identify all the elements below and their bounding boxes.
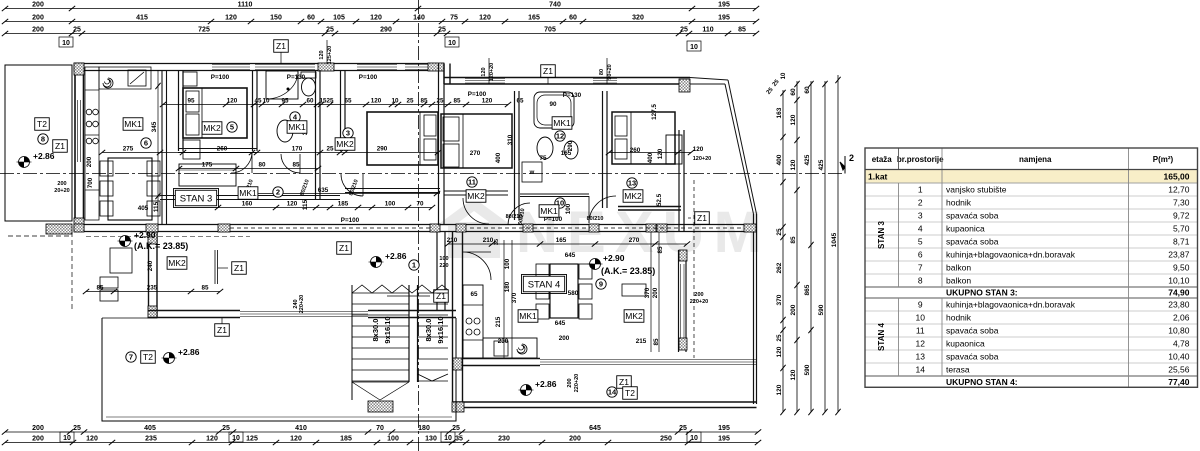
svg-text:120: 120 (790, 369, 797, 380)
svg-text:110: 110 (702, 27, 713, 34)
svg-text:(A.K.= 23.85): (A.K.= 23.85) (134, 241, 188, 251)
svg-text:MK2: MK2 (203, 123, 221, 133)
svg-text:6: 6 (144, 139, 148, 148)
chairs living left (100, 277, 118, 288)
wall between living and bedroom5 strip (161, 70, 163, 224)
living room bottom wall left seg (148, 310, 240, 312)
svg-text:hodnik: hodnik (946, 198, 972, 208)
svg-text:+2.86: +2.86 (178, 347, 200, 357)
kitchen counter stan3 top strip (99, 67, 151, 89)
svg-text:310: 310 (507, 134, 514, 145)
svg-text:STAN 3: STAN 3 (877, 221, 886, 249)
svg-text:UKUPNO STAN 4:: UKUPNO STAN 4: (946, 377, 1018, 387)
svg-text:+2.86: +2.86 (33, 151, 55, 161)
svg-text:85: 85 (201, 285, 209, 292)
balcony 8 bottom pier (46, 224, 72, 234)
svg-text:85: 85 (657, 246, 664, 254)
svg-text:52.5: 52.5 (656, 193, 663, 206)
svg-text:w: w (529, 170, 535, 176)
terrace door living room (240, 311, 368, 313)
svg-text:7: 7 (918, 263, 923, 273)
svg-text:25: 25 (776, 228, 783, 236)
bath right wall (315, 70, 317, 200)
svg-text:+2.86: +2.86 (535, 379, 557, 389)
terrace 7 outline (102, 318, 456, 421)
svg-text:MK1: MK1 (239, 188, 257, 198)
svg-text:Z1: Z1 (436, 291, 446, 301)
svg-text:1: 1 (918, 185, 923, 195)
svg-text:6: 6 (918, 250, 923, 260)
svg-text:Z1: Z1 (339, 243, 349, 253)
stan4 kitchen counter vertical (463, 285, 483, 358)
top dim row 1 (5, 8, 756, 10)
top dim row 2 (5, 21, 756, 23)
svg-text:60: 60 (569, 15, 577, 22)
outer wall: top band lower (right part) (444, 77, 690, 79)
stair arrow flight2 bottom (418, 374, 449, 381)
window left wall (77, 100, 79, 162)
svg-text:400: 400 (776, 154, 783, 165)
svg-text:210: 210 (483, 237, 494, 244)
svg-text:spavaća soba: spavaća soba (946, 326, 999, 336)
svg-text:25: 25 (326, 27, 334, 34)
svg-text:80/210: 80/210 (506, 214, 523, 220)
svg-text:80/210: 80/210 (587, 216, 604, 222)
svg-text:P=100: P=100 (359, 74, 378, 81)
svg-text:160: 160 (242, 201, 253, 208)
svg-text:120: 120 (225, 15, 237, 22)
bedroom5 left wall (178, 70, 180, 151)
svg-text:8: 8 (918, 276, 923, 286)
svg-text:270: 270 (470, 150, 481, 157)
svg-text:215: 215 (636, 338, 647, 345)
sink stan4 (494, 341, 508, 356)
stair treads flight 2 (418, 292, 449, 294)
section line horizontal 2 (0, 173, 845, 175)
svg-text:170: 170 (292, 146, 303, 153)
svg-text:105: 105 (333, 15, 345, 22)
small vertical dim above wall x607 (606, 58, 608, 84)
svg-text:1045: 1045 (831, 232, 838, 247)
svg-text:370: 370 (776, 294, 783, 305)
dashed vertical terrace boundary (693, 180, 695, 358)
armchair living (110, 248, 132, 273)
+2.86 marker at stairs top (376, 257, 382, 263)
stairs center wall (408, 285, 410, 382)
svg-text:35: 35 (455, 436, 463, 443)
svg-text:95: 95 (281, 98, 289, 105)
svg-text:262: 262 (776, 262, 783, 273)
svg-text:645: 645 (555, 320, 566, 327)
svg-text:75: 75 (539, 155, 547, 162)
svg-text:10: 10 (781, 72, 787, 79)
svg-text:10,80: 10,80 (1168, 326, 1190, 336)
stan4 dim row y243 (448, 243, 687, 245)
hall10 wall (520, 193, 589, 195)
dashed line below band left (86, 236, 250, 238)
svg-text:185: 185 (340, 436, 352, 443)
svg-text:115: 115 (302, 199, 309, 210)
svg-text:P(m²): P(m²) (1153, 155, 1174, 164)
toilet bath4 (301, 72, 316, 78)
sofa stan3 upper (179, 164, 236, 186)
svg-text:8x30.0: 8x30.0 (424, 319, 433, 342)
svg-text:120+20: 120+20 (693, 156, 712, 162)
svg-text:23,80: 23,80 (1168, 300, 1190, 310)
bed 3 (MK2) (367, 112, 438, 165)
svg-text:5: 5 (918, 237, 923, 247)
right outer wall vertical (753, 214, 755, 404)
bedroom13 bottom wall (618, 206, 681, 208)
svg-text:290: 290 (380, 27, 392, 34)
svg-text:65: 65 (344, 98, 352, 105)
svg-text:25: 25 (452, 425, 460, 432)
Z1 beam mark living (214, 250, 216, 284)
svg-text:370: 370 (644, 287, 651, 298)
right dim line 5 (837, 75, 839, 412)
svg-text:8,71: 8,71 (1173, 237, 1190, 247)
svg-text:260: 260 (217, 146, 228, 153)
svg-text:25: 25 (326, 146, 334, 153)
svg-text:10: 10 (391, 98, 399, 105)
svg-text:12: 12 (916, 339, 926, 349)
svg-text:405: 405 (138, 205, 149, 212)
svg-text:77,40: 77,40 (1168, 377, 1190, 387)
svg-text:Z1: Z1 (217, 325, 227, 335)
svg-text:195: 195 (718, 425, 730, 432)
wardrobe 13 (666, 135, 682, 164)
stairwell walls (452, 232, 454, 402)
T2 label 8 (35, 118, 50, 131)
stair zigzag arrow top (352, 285, 448, 293)
svg-text:35: 35 (494, 239, 500, 245)
svg-text:2: 2 (918, 198, 923, 208)
svg-text:290: 290 (377, 146, 388, 153)
svg-text:230: 230 (498, 436, 510, 443)
shower bath4 (266, 71, 298, 99)
table UKUPNO STAN 4 row (865, 376, 1198, 387)
svg-text:60: 60 (804, 86, 811, 94)
living room right wall (436, 232, 438, 310)
stair left wall (351, 285, 353, 400)
svg-text:120: 120 (693, 146, 704, 153)
sink stan3 (128, 70, 146, 86)
svg-text:85: 85 (790, 236, 797, 244)
labels upper stan4 (467, 177, 477, 187)
svg-text:215: 215 (495, 316, 502, 327)
svg-text:270: 270 (629, 237, 640, 244)
svg-text:P=100: P=100 (211, 74, 230, 81)
svg-text:180: 180 (504, 281, 511, 292)
svg-text:25: 25 (222, 425, 230, 432)
svg-text:MK1: MK1 (288, 122, 306, 132)
bed 5 (MK2 stan3) (183, 88, 247, 138)
svg-text:UKUPNO STAN 3:: UKUPNO STAN 3: (946, 288, 1018, 298)
svg-text:645: 645 (589, 425, 601, 432)
svg-text:250: 250 (660, 436, 672, 443)
svg-text:165: 165 (528, 15, 540, 22)
bottom band piers (74, 224, 84, 232)
svg-text:90: 90 (549, 101, 557, 108)
side table stan4 (622, 284, 646, 296)
svg-text:MK1: MK1 (553, 118, 571, 128)
svg-text:5,70: 5,70 (1173, 224, 1190, 234)
svg-text:4: 4 (918, 224, 923, 234)
svg-text:10: 10 (690, 44, 698, 51)
svg-text:120: 120 (371, 98, 382, 105)
svg-text:115: 115 (153, 201, 160, 212)
svg-text:45: 45 (254, 98, 262, 105)
svg-text:kupaonica: kupaonica (946, 224, 985, 234)
sink bath4 (277, 120, 293, 142)
stan4 kitchen counter bottom (483, 338, 537, 358)
svg-text:345: 345 (151, 121, 158, 132)
bath12 labels (552, 117, 572, 130)
svg-text:9x16.10: 9x16.10 (383, 316, 392, 343)
interior dim row y168 (179, 168, 318, 170)
stair treads flight 1 (352, 292, 409, 294)
svg-text:100: 100 (439, 256, 448, 262)
svg-text:85: 85 (292, 162, 300, 169)
svg-text:7,30: 7,30 (1173, 198, 1190, 208)
dashed projection line below balcony (71, 232, 73, 310)
kitchen counter stan3 vertical strip (85, 67, 99, 220)
window in top wall P=100 (212, 64, 250, 66)
bathtub bath12 (534, 92, 574, 128)
svg-text:60: 60 (307, 15, 315, 22)
svg-text:410: 410 (295, 425, 307, 432)
nightstand bed5 (183, 72, 197, 86)
small vertical dim above wall x489 (488, 58, 490, 84)
svg-text:etaža: etaža (872, 155, 893, 164)
living room left wall (148, 232, 150, 318)
svg-text:590: 590 (804, 364, 811, 375)
svg-text:60: 60 (306, 98, 314, 105)
stan4 interior dim verticals right (650, 232, 652, 352)
door arc hall-bed5 (231, 152, 252, 173)
svg-text:MK1: MK1 (519, 311, 537, 321)
svg-text:10: 10 (444, 435, 452, 442)
svg-text:9,72: 9,72 (1173, 211, 1190, 221)
svg-text:200: 200 (32, 425, 44, 432)
svg-text:9x16.10: 9x16.10 (436, 316, 445, 343)
svg-text:STAN 4: STAN 4 (528, 279, 561, 290)
svg-text:25: 25 (326, 98, 334, 105)
table outer border (865, 148, 1198, 387)
right outer corner + diagonal wall (690, 78, 728, 81)
svg-text:1.kat: 1.kat (868, 172, 888, 182)
svg-text:195: 195 (718, 2, 730, 9)
svg-text:3: 3 (346, 129, 350, 138)
table 1.kat row (865, 170, 1198, 184)
svg-text:4,78: 4,78 (1173, 339, 1190, 349)
bedroom3 left wall (340, 70, 342, 151)
svg-text:740: 740 (549, 2, 561, 9)
svg-text:MK2: MK2 (624, 191, 642, 201)
window in top wall P=100 (2) (357, 64, 397, 66)
boxed 10 labels top (59, 37, 73, 47)
bedroom5 bottom wall (178, 148, 257, 150)
svg-text:180: 180 (418, 425, 430, 432)
svg-text:STAN 4: STAN 4 (877, 323, 886, 351)
svg-text:65: 65 (470, 291, 478, 298)
svg-text:120: 120 (482, 98, 493, 105)
outer wall: top band upper (left part) (74, 63, 444, 65)
boxed 10 labels bottom (60, 432, 74, 442)
svg-text:11: 11 (468, 178, 476, 187)
living dim row y291 (86, 291, 220, 293)
svg-text:+2.86: +2.86 (385, 251, 407, 261)
svg-text:T2: T2 (143, 352, 153, 362)
svg-text:260: 260 (630, 147, 641, 154)
svg-text:865: 865 (804, 284, 811, 295)
svg-text:hodnik: hodnik (946, 313, 972, 323)
door arc bed11 (463, 198, 489, 224)
svg-text:120: 120 (206, 436, 218, 443)
svg-text:220+20: 220+20 (299, 295, 305, 314)
svg-text:320: 320 (632, 15, 644, 22)
svg-text:3: 3 (918, 211, 923, 221)
svg-text:9,50: 9,50 (1173, 263, 1190, 273)
washing machine bath12 (522, 162, 542, 182)
svg-text:400: 400 (495, 152, 502, 163)
svg-text:120: 120 (657, 148, 664, 159)
svg-text:25: 25 (436, 98, 444, 105)
svg-text:P=100: P=100 (341, 217, 360, 224)
svg-text:100: 100 (387, 436, 399, 443)
labels stan3 (123, 118, 143, 131)
table STAN 3 rows (865, 182, 1198, 184)
svg-text:80: 80 (258, 162, 266, 169)
door arc bedroom11 (508, 203, 530, 225)
Z1 label right (695, 212, 710, 225)
svg-text:10: 10 (232, 435, 240, 442)
svg-text:100: 100 (504, 258, 511, 269)
chairs stan3 (100, 161, 113, 176)
stan4 bottom wall w window (463, 358, 540, 360)
svg-text:200: 200 (57, 181, 66, 187)
dining table stan4 (550, 264, 578, 318)
svg-text:(A.K.= 23.85): (A.K.= 23.85) (601, 266, 655, 276)
svg-text:MK1: MK1 (540, 206, 558, 216)
svg-text:7: 7 (129, 353, 133, 362)
svg-text:150: 150 (270, 15, 282, 22)
top dim row 3 (5, 33, 756, 35)
table header row (865, 148, 1198, 170)
labels living (125, 236, 131, 242)
svg-text:175: 175 (202, 162, 213, 169)
svg-text:vanjsko stubište: vanjsko stubište (946, 185, 1007, 195)
svg-text:95: 95 (187, 98, 195, 105)
svg-text:125+20: 125+20 (327, 46, 333, 65)
svg-text:25: 25 (438, 27, 446, 34)
svg-text:9: 9 (599, 280, 603, 289)
svg-text:200: 200 (694, 292, 703, 298)
svg-text:185: 185 (338, 201, 349, 208)
svg-text:10,10: 10,10 (1168, 276, 1190, 286)
svg-text:75: 75 (450, 15, 458, 22)
svg-text:85: 85 (453, 98, 461, 105)
svg-text:200: 200 (32, 2, 44, 9)
svg-text:+2.90: +2.90 (603, 253, 625, 263)
small vertical dim above wall x327 (326, 40, 328, 64)
bottom-right outer wall (452, 401, 757, 403)
bedroom3 bottom wall (345, 188, 440, 190)
svg-text:T2: T2 (37, 119, 47, 129)
svg-text:10: 10 (62, 40, 70, 47)
window P=100 lower band (465, 78, 505, 80)
svg-text:80: 80 (599, 69, 605, 75)
svg-text:200: 200 (652, 287, 659, 298)
sink bath12 (537, 137, 553, 159)
balcony 8 outline top-left (5, 65, 72, 221)
svg-text:120+20: 120+20 (489, 63, 495, 82)
apartment bottom wall band (74, 224, 756, 226)
table column lines (898, 148, 900, 170)
window in top wall P=130 (255, 64, 315, 66)
bed 13 (612, 112, 675, 164)
svg-text:210: 210 (447, 237, 458, 244)
right dim line 1 (782, 90, 784, 412)
svg-text:120: 120 (790, 159, 797, 170)
svg-text:spavaća soba: spavaća soba (946, 352, 999, 362)
spiral stove stan4 (517, 344, 527, 354)
svg-text:balkon: balkon (946, 276, 971, 286)
svg-text:645: 645 (565, 252, 576, 259)
svg-text:1: 1 (412, 261, 416, 270)
svg-text:13: 13 (628, 179, 636, 188)
stan4 labels (523, 276, 564, 292)
svg-text:20+20: 20+20 (54, 188, 69, 194)
svg-text:kuhinja+blagovaonica+dn.borava: kuhinja+blagovaonica+dn.boravak (946, 300, 1076, 310)
right dim line 3 (810, 81, 812, 412)
svg-text:230: 230 (498, 338, 509, 345)
stan4 dining right wall with window (678, 250, 680, 352)
svg-text:74,90: 74,90 (1168, 288, 1190, 298)
hall wall stan3 (160, 195, 340, 197)
svg-text:415: 415 (136, 15, 148, 22)
right dim line 2 (796, 81, 798, 412)
svg-text:140: 140 (413, 15, 425, 22)
svg-text:Z1: Z1 (619, 377, 629, 387)
hob stan4 (466, 318, 472, 324)
bedroom13 inner right wall (678, 130, 680, 231)
svg-text:9: 9 (918, 300, 923, 310)
stan4 kitchen door arc (463, 252, 491, 280)
svg-text:kupaonica: kupaonica (946, 339, 985, 349)
svg-text:220+20: 220+20 (574, 374, 580, 393)
svg-text:1110: 1110 (238, 2, 253, 9)
svg-text:235: 235 (145, 436, 157, 443)
svg-text:10: 10 (63, 435, 71, 442)
svg-text:400: 400 (647, 152, 654, 163)
svg-text:25: 25 (73, 425, 81, 432)
window in top wall (4) (405, 64, 428, 66)
svg-text:100: 100 (565, 203, 572, 214)
right dim line 4 (824, 81, 826, 412)
svg-text:220+20: 220+20 (690, 299, 709, 305)
dashed opening lines in bottom band (230, 227, 430, 229)
svg-text:165,00: 165,00 (1164, 172, 1190, 182)
svg-text:200: 200 (32, 15, 44, 22)
stair landing (352, 381, 409, 383)
svg-text:12: 12 (556, 132, 564, 141)
svg-text:Z1: Z1 (276, 41, 286, 51)
svg-text:85: 85 (738, 27, 746, 34)
Z1 label top (280, 51, 282, 64)
left outer wall (74, 63, 76, 231)
svg-text:MK2: MK2 (336, 139, 354, 149)
